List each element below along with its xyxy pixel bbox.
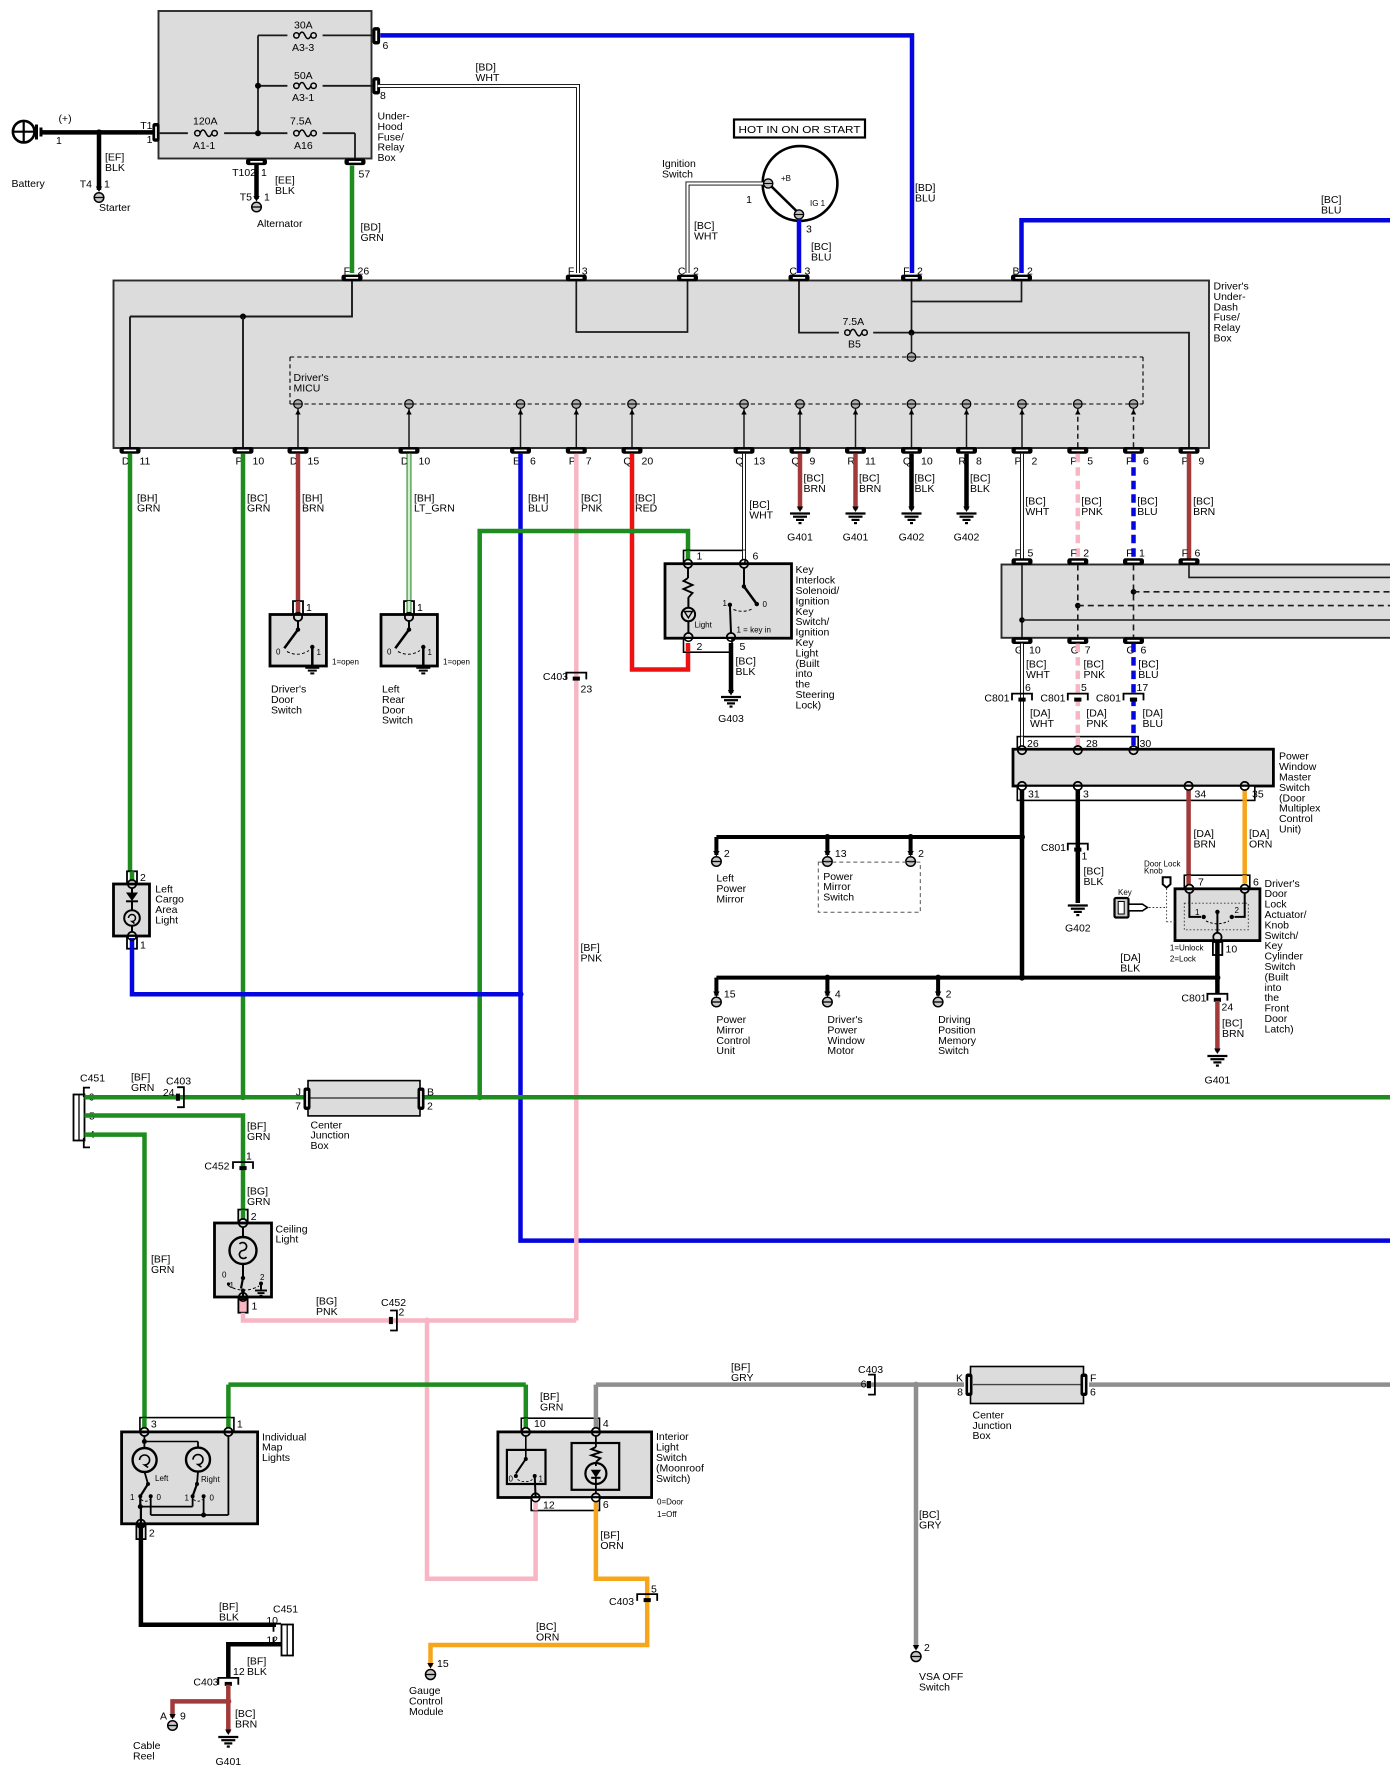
svg-text:12: 12 bbox=[543, 1500, 555, 1512]
svg-text:2: 2 bbox=[917, 266, 923, 278]
svg-text:GRN: GRN bbox=[247, 503, 270, 515]
svg-text:1=open: 1=open bbox=[443, 658, 470, 667]
svg-text:12: 12 bbox=[233, 1666, 245, 1678]
svg-text:PNK: PNK bbox=[581, 503, 603, 515]
svg-text:0: 0 bbox=[276, 648, 281, 657]
svg-text:Unit: Unit bbox=[716, 1045, 735, 1057]
svg-text:120A: 120A bbox=[193, 116, 218, 128]
svg-text:1=open: 1=open bbox=[332, 658, 359, 667]
svg-text:1: 1 bbox=[539, 1475, 544, 1484]
svg-text:1=Off: 1=Off bbox=[657, 1510, 677, 1519]
svg-text:C801: C801 bbox=[1040, 693, 1065, 705]
svg-text:Lock): Lock) bbox=[796, 699, 822, 711]
svg-text:2: 2 bbox=[427, 1101, 433, 1113]
svg-text:1: 1 bbox=[697, 551, 703, 563]
svg-text:A: A bbox=[160, 1711, 167, 1723]
svg-text:2: 2 bbox=[1032, 456, 1038, 468]
svg-text:PNK: PNK bbox=[1086, 718, 1108, 730]
svg-text:BLU: BLU bbox=[811, 251, 831, 263]
svg-text:10: 10 bbox=[1226, 944, 1238, 956]
svg-text:0: 0 bbox=[210, 1494, 215, 1503]
svg-text:6: 6 bbox=[1195, 548, 1201, 560]
svg-text:1: 1 bbox=[746, 194, 752, 206]
svg-text:F: F bbox=[1090, 1373, 1096, 1385]
svg-text:1: 1 bbox=[237, 1419, 243, 1431]
svg-text:G402: G402 bbox=[954, 532, 980, 544]
svg-text:BLK: BLK bbox=[105, 162, 125, 174]
svg-text:13: 13 bbox=[835, 848, 847, 860]
svg-text:24: 24 bbox=[163, 1087, 175, 1099]
svg-text:IG 1: IG 1 bbox=[810, 199, 826, 208]
svg-text:10: 10 bbox=[419, 456, 431, 468]
svg-text:1: 1 bbox=[261, 167, 267, 179]
svg-text:24: 24 bbox=[1222, 1002, 1234, 1014]
svg-text:6: 6 bbox=[603, 1499, 609, 1511]
svg-text:8: 8 bbox=[976, 456, 982, 468]
svg-text:BLK: BLK bbox=[1120, 962, 1140, 974]
svg-text:B5: B5 bbox=[848, 339, 861, 351]
svg-text:Switch): Switch) bbox=[656, 1473, 690, 1485]
svg-text:C403: C403 bbox=[543, 671, 568, 683]
svg-text:G402: G402 bbox=[899, 532, 925, 544]
svg-text:5: 5 bbox=[1028, 548, 1034, 560]
svg-text:20: 20 bbox=[642, 456, 654, 468]
svg-text:ORN: ORN bbox=[536, 1632, 559, 1644]
svg-text:1: 1 bbox=[140, 940, 146, 952]
svg-text:2=Lock: 2=Lock bbox=[1170, 955, 1197, 964]
svg-text:2: 2 bbox=[1027, 266, 1033, 278]
svg-text:1: 1 bbox=[230, 1281, 235, 1290]
svg-text:1: 1 bbox=[1139, 548, 1145, 560]
svg-text:A1-1: A1-1 bbox=[193, 140, 215, 152]
svg-text:G401: G401 bbox=[843, 532, 869, 544]
svg-text:WHT: WHT bbox=[694, 230, 718, 242]
svg-text:6: 6 bbox=[1090, 1387, 1096, 1399]
svg-text:6: 6 bbox=[753, 551, 759, 563]
svg-text:13: 13 bbox=[754, 456, 766, 468]
svg-text:50A: 50A bbox=[294, 70, 313, 82]
svg-text:T102: T102 bbox=[232, 167, 256, 179]
svg-text:C: C bbox=[789, 266, 797, 278]
svg-text:Starter: Starter bbox=[99, 202, 131, 214]
svg-text:A3-3: A3-3 bbox=[292, 42, 314, 54]
svg-text:B: B bbox=[1012, 266, 1019, 278]
svg-text:1: 1 bbox=[147, 134, 153, 146]
svg-text:15: 15 bbox=[437, 1658, 449, 1670]
svg-text:10: 10 bbox=[1029, 645, 1041, 657]
svg-text:BLK: BLK bbox=[247, 1666, 267, 1678]
svg-text:2: 2 bbox=[697, 641, 703, 653]
svg-text:2: 2 bbox=[399, 1307, 405, 1319]
svg-text:Key: Key bbox=[1118, 888, 1132, 897]
svg-text:PNK: PNK bbox=[316, 1306, 338, 1318]
svg-text:35: 35 bbox=[1252, 789, 1264, 801]
svg-text:2: 2 bbox=[918, 848, 924, 860]
svg-text:2: 2 bbox=[251, 1211, 257, 1223]
svg-text:3: 3 bbox=[1083, 789, 1089, 801]
svg-text:1: 1 bbox=[56, 135, 62, 147]
svg-text:Light: Light bbox=[276, 1234, 299, 1246]
svg-text:G403: G403 bbox=[718, 713, 744, 725]
svg-text:BRN: BRN bbox=[235, 1718, 257, 1730]
svg-text:PNK: PNK bbox=[1081, 506, 1103, 518]
svg-text:C801: C801 bbox=[1096, 693, 1121, 705]
svg-text:2: 2 bbox=[1235, 906, 1240, 915]
svg-text:5: 5 bbox=[1081, 682, 1087, 694]
svg-text:57: 57 bbox=[359, 169, 371, 181]
svg-text:3: 3 bbox=[806, 224, 812, 236]
svg-text:MICU: MICU bbox=[294, 382, 321, 394]
svg-text:9: 9 bbox=[810, 456, 816, 468]
svg-text:1: 1 bbox=[185, 1494, 190, 1503]
svg-text:K: K bbox=[956, 1373, 963, 1385]
svg-text:9: 9 bbox=[1199, 456, 1205, 468]
svg-text:WHT: WHT bbox=[476, 72, 500, 84]
svg-text:3: 3 bbox=[805, 266, 811, 278]
svg-text:HOT IN ON OR START: HOT IN ON OR START bbox=[739, 124, 862, 136]
svg-text:30A: 30A bbox=[294, 20, 313, 32]
svg-text:2: 2 bbox=[140, 872, 146, 884]
svg-text:Box: Box bbox=[378, 152, 397, 164]
svg-text:4: 4 bbox=[835, 989, 841, 1001]
svg-text:C403: C403 bbox=[193, 1677, 218, 1689]
svg-text:10: 10 bbox=[266, 1615, 278, 1627]
svg-text:Box: Box bbox=[973, 1430, 992, 1442]
svg-text:Box: Box bbox=[1214, 333, 1233, 345]
svg-text:6: 6 bbox=[1143, 456, 1149, 468]
svg-text:Switch: Switch bbox=[919, 1681, 950, 1693]
svg-text:A16: A16 bbox=[294, 140, 313, 152]
svg-text:1 = key in: 1 = key in bbox=[737, 626, 771, 635]
svg-text:BRN: BRN bbox=[302, 503, 324, 515]
svg-text:GRY: GRY bbox=[919, 1520, 942, 1532]
svg-text:10: 10 bbox=[921, 456, 933, 468]
svg-text:WHT: WHT bbox=[1030, 718, 1054, 730]
svg-text:1: 1 bbox=[104, 179, 110, 191]
svg-text:BLU: BLU bbox=[1138, 669, 1158, 681]
svg-text:C801: C801 bbox=[1181, 993, 1206, 1005]
svg-text:17: 17 bbox=[1137, 682, 1149, 694]
svg-text:ORN: ORN bbox=[600, 1540, 623, 1552]
svg-text:BLK: BLK bbox=[915, 483, 935, 495]
svg-text:BRN: BRN bbox=[804, 483, 826, 495]
svg-text:1: 1 bbox=[1082, 851, 1088, 863]
svg-text:1: 1 bbox=[417, 602, 423, 614]
svg-text:5: 5 bbox=[1087, 456, 1093, 468]
svg-text:26: 26 bbox=[358, 266, 370, 278]
svg-text:WHT: WHT bbox=[1025, 506, 1049, 518]
svg-text:Latch): Latch) bbox=[1265, 1023, 1294, 1035]
svg-text:BRN: BRN bbox=[1193, 506, 1215, 518]
svg-text:BLK: BLK bbox=[970, 483, 990, 495]
svg-text:4: 4 bbox=[603, 1418, 609, 1430]
svg-text:G402: G402 bbox=[1065, 923, 1091, 935]
svg-text:Module: Module bbox=[409, 1706, 444, 1718]
svg-text:F: F bbox=[903, 266, 909, 278]
svg-text:8: 8 bbox=[957, 1387, 963, 1399]
svg-text:2: 2 bbox=[1083, 548, 1089, 560]
svg-text:0: 0 bbox=[222, 1271, 227, 1280]
svg-text:GRN: GRN bbox=[361, 232, 384, 244]
svg-text:GRN: GRN bbox=[540, 1401, 563, 1413]
svg-text:1: 1 bbox=[246, 1151, 252, 1163]
svg-text:F: F bbox=[344, 266, 350, 278]
svg-text:7: 7 bbox=[295, 1101, 301, 1113]
svg-text:6: 6 bbox=[1253, 877, 1259, 889]
svg-text:1: 1 bbox=[723, 599, 728, 608]
svg-text:A3-1: A3-1 bbox=[292, 92, 314, 104]
svg-text:C403: C403 bbox=[609, 1596, 634, 1608]
svg-text:Right: Right bbox=[201, 1475, 220, 1484]
svg-text:1: 1 bbox=[252, 1301, 258, 1313]
svg-text:Reel: Reel bbox=[133, 1750, 155, 1762]
svg-text:11: 11 bbox=[865, 456, 876, 468]
svg-text:Lights: Lights bbox=[262, 1452, 290, 1464]
svg-text:WHT: WHT bbox=[1026, 669, 1050, 681]
svg-text:BLU: BLU bbox=[1321, 204, 1341, 216]
svg-text:C403: C403 bbox=[858, 1364, 883, 1376]
svg-text:BLK: BLK bbox=[275, 185, 295, 197]
svg-text:BRN: BRN bbox=[1194, 838, 1216, 850]
svg-text:0: 0 bbox=[157, 1493, 162, 1502]
svg-text:RED: RED bbox=[635, 503, 658, 515]
svg-text:C801: C801 bbox=[1041, 842, 1066, 854]
svg-text:G401: G401 bbox=[1205, 1075, 1231, 1087]
svg-text:G401: G401 bbox=[787, 532, 813, 544]
svg-text:Left: Left bbox=[155, 1474, 169, 1483]
svg-text:T5: T5 bbox=[240, 192, 252, 204]
svg-text:0: 0 bbox=[509, 1475, 514, 1484]
svg-text:GRY: GRY bbox=[731, 1372, 754, 1384]
svg-text:C801: C801 bbox=[984, 693, 1009, 705]
svg-text:+B: +B bbox=[781, 174, 791, 183]
svg-text:F: F bbox=[568, 266, 574, 278]
svg-text:15: 15 bbox=[724, 989, 736, 1001]
svg-text:1: 1 bbox=[264, 192, 270, 204]
svg-text:GRN: GRN bbox=[137, 503, 160, 515]
svg-text:BLK: BLK bbox=[736, 666, 756, 678]
svg-text:Unit): Unit) bbox=[1279, 824, 1301, 836]
svg-text:PNK: PNK bbox=[581, 952, 603, 964]
svg-text:C: C bbox=[678, 266, 686, 278]
svg-text:6: 6 bbox=[861, 1379, 867, 1391]
svg-text:7: 7 bbox=[1085, 645, 1091, 657]
svg-text:6: 6 bbox=[530, 456, 536, 468]
svg-text:0: 0 bbox=[387, 648, 392, 657]
svg-text:5: 5 bbox=[740, 641, 746, 653]
svg-text:1: 1 bbox=[428, 648, 433, 657]
svg-text:BLU: BLU bbox=[1137, 506, 1157, 518]
svg-text:BLK: BLK bbox=[1084, 876, 1104, 888]
svg-text:Motor: Motor bbox=[827, 1045, 854, 1057]
svg-text:Switch: Switch bbox=[382, 715, 413, 727]
svg-text:2: 2 bbox=[924, 1642, 930, 1654]
svg-text:Alternator: Alternator bbox=[257, 218, 303, 230]
svg-text:BLU: BLU bbox=[915, 192, 935, 204]
svg-text:2: 2 bbox=[724, 848, 730, 860]
svg-text:Switch: Switch bbox=[662, 168, 693, 180]
svg-text:C451: C451 bbox=[273, 1604, 298, 1616]
svg-text:WHT: WHT bbox=[749, 509, 773, 521]
svg-text:LT_GRN: LT_GRN bbox=[414, 503, 455, 515]
svg-text:1: 1 bbox=[1195, 908, 1200, 917]
svg-text:Switch: Switch bbox=[938, 1045, 969, 1057]
svg-text:J: J bbox=[296, 1087, 301, 1099]
svg-text:PNK: PNK bbox=[1084, 669, 1106, 681]
svg-text:6: 6 bbox=[383, 40, 389, 52]
svg-text:C452: C452 bbox=[204, 1161, 229, 1173]
svg-text:F: F bbox=[1126, 548, 1132, 560]
svg-text:BRN: BRN bbox=[859, 483, 881, 495]
svg-text:0: 0 bbox=[763, 600, 768, 609]
svg-text:2: 2 bbox=[260, 1273, 265, 1282]
svg-text:15: 15 bbox=[308, 456, 320, 468]
svg-text:7.5A: 7.5A bbox=[290, 116, 312, 128]
svg-text:F: F bbox=[1182, 548, 1188, 560]
svg-text:Switch: Switch bbox=[271, 704, 302, 716]
svg-text:G401: G401 bbox=[215, 1756, 241, 1768]
svg-text:B: B bbox=[427, 1087, 434, 1099]
svg-text:GRN: GRN bbox=[247, 1131, 270, 1143]
svg-text:7.5A: 7.5A bbox=[843, 316, 865, 328]
svg-text:2: 2 bbox=[149, 1528, 155, 1540]
svg-text:Knob: Knob bbox=[1144, 867, 1163, 876]
svg-text:GRN: GRN bbox=[131, 1082, 154, 1094]
svg-text:31: 31 bbox=[1028, 789, 1040, 801]
svg-text:3: 3 bbox=[582, 266, 588, 278]
svg-text:6: 6 bbox=[1141, 645, 1147, 657]
svg-text:BRN: BRN bbox=[1222, 1028, 1244, 1040]
svg-text:Battery: Battery bbox=[12, 178, 46, 190]
svg-text:3: 3 bbox=[151, 1419, 157, 1431]
svg-text:T4: T4 bbox=[80, 179, 92, 191]
svg-text:7: 7 bbox=[586, 456, 592, 468]
svg-text:2: 2 bbox=[693, 266, 699, 278]
svg-text:2: 2 bbox=[946, 989, 952, 1001]
svg-text:34: 34 bbox=[1195, 789, 1207, 801]
svg-text:23: 23 bbox=[581, 684, 593, 696]
svg-text:1: 1 bbox=[317, 648, 322, 657]
svg-text:GRN: GRN bbox=[247, 1196, 270, 1208]
svg-text:Light: Light bbox=[695, 621, 713, 630]
svg-text:Mirror: Mirror bbox=[716, 893, 744, 905]
svg-text:5: 5 bbox=[651, 1584, 657, 1596]
svg-text:1: 1 bbox=[130, 1493, 135, 1502]
svg-text:GRN: GRN bbox=[151, 1264, 174, 1276]
svg-text:10: 10 bbox=[253, 456, 265, 468]
svg-text:6: 6 bbox=[1025, 682, 1031, 694]
svg-text:BLU: BLU bbox=[528, 503, 548, 515]
svg-text:Switch: Switch bbox=[823, 892, 854, 904]
svg-text:ORN: ORN bbox=[1249, 838, 1272, 850]
svg-text:BLU: BLU bbox=[1143, 718, 1163, 730]
svg-text:(+): (+) bbox=[58, 113, 71, 125]
svg-text:0=Door: 0=Door bbox=[657, 1498, 684, 1507]
svg-text:1=Unlock: 1=Unlock bbox=[1170, 944, 1205, 953]
svg-text:11: 11 bbox=[140, 456, 151, 468]
svg-text:7: 7 bbox=[1198, 877, 1204, 889]
svg-text:F: F bbox=[1070, 548, 1076, 560]
svg-text:C451: C451 bbox=[80, 1073, 105, 1085]
svg-text:1: 1 bbox=[306, 602, 312, 614]
svg-text:Light: Light bbox=[155, 915, 178, 927]
svg-text:C403: C403 bbox=[166, 1076, 191, 1088]
svg-text:BLK: BLK bbox=[219, 1611, 239, 1623]
svg-text:10: 10 bbox=[534, 1418, 546, 1430]
svg-text:9: 9 bbox=[180, 1711, 186, 1723]
svg-text:Box: Box bbox=[311, 1140, 330, 1152]
svg-text:F: F bbox=[1015, 548, 1021, 560]
svg-text:8: 8 bbox=[380, 90, 386, 102]
